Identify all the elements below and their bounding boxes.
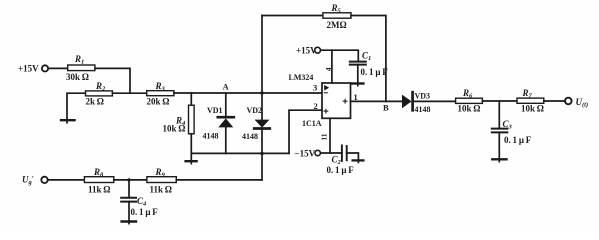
terminal U(t) output <box>565 98 572 105</box>
wire feedback top right segment and drop to output <box>351 16 386 102</box>
svg-text:+15V: +15V <box>296 45 317 55</box>
wire -15V to C2 <box>320 152 342 154</box>
ground (C2) <box>353 159 364 161</box>
diode VD2 <box>254 16 270 180</box>
op-amp plus mark (output side) <box>343 99 347 103</box>
svg-text:0. 1 μ F: 0. 1 μ F <box>327 165 355 175</box>
svg-text:4: 4 <box>324 67 333 71</box>
wire R1 right corner down <box>95 68 130 93</box>
ground (C4) <box>122 220 136 222</box>
svg-text:0. 1 μ F: 0. 1 μ F <box>131 207 159 217</box>
svg-text:B: B <box>383 102 389 112</box>
wire R8 to R9 <box>114 179 147 181</box>
svg-text:10k Ω: 10k Ω <box>521 104 544 114</box>
op-amp input marker triangle <box>324 85 329 91</box>
resistor R6 <box>456 98 483 103</box>
svg-text:11: 11 <box>320 133 329 140</box>
capacitor C4 <box>121 180 136 224</box>
wire +15V to R1 <box>48 67 67 69</box>
capacitor C2 <box>342 145 359 162</box>
wire op-amp pin 4 <box>331 50 333 83</box>
resistor R5 <box>323 13 351 18</box>
svg-text:1: 1 <box>354 92 358 102</box>
svg-text:10k Ω: 10k Ω <box>163 124 186 134</box>
ground (R2 branch) <box>61 119 75 121</box>
svg-text:VD2: VD2 <box>247 106 263 115</box>
wire R2 to R3 <box>112 92 146 94</box>
diode VD1 <box>218 93 234 153</box>
terminal +15V (left) <box>42 65 48 71</box>
terminal -15V <box>315 150 320 155</box>
resistor R3 <box>147 91 174 96</box>
resistor R8 <box>84 177 113 183</box>
svg-text:LM324: LM324 <box>289 73 314 82</box>
svg-text:0. 1 μ F: 0. 1 μ F <box>504 135 532 145</box>
ground (C3) <box>492 158 506 160</box>
svg-text:30k Ω: 30k Ω <box>66 72 89 82</box>
wire op-amp pin 2 <box>289 110 322 153</box>
wire R9 up to clamp rail <box>176 179 262 181</box>
node junction VD2/pin3 wire <box>260 91 263 94</box>
resistor R9 <box>147 177 176 183</box>
op-amp U1 LM324 body <box>322 83 351 118</box>
resistor R2 <box>86 91 113 96</box>
capacitor C3 <box>492 101 508 162</box>
diode VD3 <box>402 92 413 110</box>
svg-text:VD3: VD3 <box>415 92 431 101</box>
resistor R4 <box>189 93 195 164</box>
svg-text:4148: 4148 <box>415 105 431 114</box>
wire op-amp output to VD3 <box>351 100 403 102</box>
wire feedback top left segment <box>262 15 323 17</box>
wire op-amp pin 11 <box>329 118 331 153</box>
wire R7 to output terminal <box>544 100 565 102</box>
svg-text:3: 3 <box>313 83 317 93</box>
svg-text:−15V: −15V <box>295 148 316 158</box>
svg-text:+15V: +15V <box>18 64 39 74</box>
node junction VD2/clamp rail <box>260 152 263 155</box>
wire VD3 to R6 <box>414 100 456 102</box>
capacitor C1 <box>350 62 366 86</box>
svg-text:11k Ω: 11k Ω <box>88 184 111 194</box>
svg-text:0. 1 μ F: 0. 1 μ F <box>361 67 389 77</box>
wire R3 to op-amp pin3 (node A line) <box>174 92 322 94</box>
wire R6 to R7 <box>482 100 517 102</box>
ground (C1) <box>352 82 363 84</box>
svg-text:2: 2 <box>314 101 318 111</box>
svg-text:1C1A: 1C1A <box>302 119 322 128</box>
svg-text:4148: 4148 <box>203 132 219 141</box>
svg-text:20k Ω: 20k Ω <box>147 96 170 106</box>
svg-text:2k Ω: 2k Ω <box>86 96 105 106</box>
op-amp minus mark <box>324 92 327 94</box>
op-amp plus mark (pin2 side) <box>324 109 328 113</box>
terminal +15V (op-amp supply) <box>315 47 321 53</box>
resistor R1 <box>68 65 95 71</box>
svg-text:4148: 4148 <box>242 132 258 141</box>
wire R2 left branch <box>67 93 86 123</box>
resistor R7 <box>517 98 544 103</box>
svg-text:A: A <box>223 82 230 92</box>
terminal Ug' input <box>41 177 47 183</box>
svg-text:VD1: VD1 <box>207 106 223 115</box>
wire +15V supply <box>321 50 359 61</box>
svg-text:2MΩ: 2MΩ <box>327 20 347 30</box>
wire Ug' to R8 <box>48 179 84 181</box>
svg-text:10k Ω: 10k Ω <box>458 104 481 114</box>
node junction C4 tap <box>127 178 130 181</box>
wire lower clamp rail <box>191 152 289 154</box>
svg-text:11k Ω: 11k Ω <box>150 184 173 194</box>
ground (R4) <box>186 160 197 162</box>
